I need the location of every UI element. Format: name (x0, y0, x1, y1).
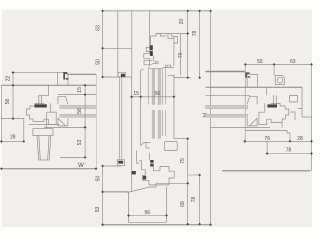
glass pane r2 (206, 114, 248, 117)
glass pane vertical 2 upper (158, 69, 161, 105)
ticks 15/56/53 (84, 84, 87, 159)
glazing bead top right (247, 96, 257, 104)
svg-text:28: 28 (297, 136, 303, 142)
ticks mid-left (101, 10, 104, 227)
frame head outer edge (117, 11, 119, 77)
dimension H vertical (210, 11, 212, 225)
sash chamber block (165, 141, 178, 150)
svg-text:50: 50 (96, 59, 102, 65)
tick line 20 (156, 33, 188, 35)
right border vertical (311, 64, 313, 170)
svg-text:63: 63 (96, 25, 102, 31)
sash top gasket dark (150, 45, 153, 50)
glass pane vertical 1 lower (152, 110, 155, 138)
frame inner face line right (206, 86, 302, 88)
tick line 75 top (174, 138, 189, 140)
ticks mid 15/56 (130, 95, 175, 98)
ticks H (209, 10, 212, 227)
sight line (58, 94, 96, 96)
tick line 53 bottom (60, 156, 85, 158)
upper rail bumps (149, 61, 174, 68)
ext vertical 50 left (244, 64, 246, 141)
anchor clip top (118, 72, 125, 77)
dimension right vertical 20/70 (187, 11, 189, 78)
sight line right (206, 94, 250, 96)
section break line (95, 74, 97, 168)
handle bar (33, 129, 53, 136)
frame head lower chamber (132, 48, 150, 75)
frame outer right vertical (180, 34, 182, 76)
ticks 78 top/bottom (198, 10, 201, 226)
wall step (1, 119, 23, 142)
svg-text:W: W (78, 163, 84, 169)
dimension left vertical 63/50/50/53 (102, 11, 104, 225)
bottom edge line (103, 224, 211, 226)
frame bottom line (103, 75, 191, 77)
ext vertical 63 mid (273, 64, 275, 75)
dimension 50/63 top (245, 63, 311, 65)
sash bottom profile (137, 143, 175, 185)
svg-text:15: 15 (133, 91, 139, 97)
gasket dark (35, 104, 47, 107)
dimension 78 right (267, 153, 311, 155)
frame inner face vertical (131, 76, 133, 192)
sash profile right (259, 87, 289, 124)
svg-text:53: 53 (77, 139, 83, 145)
svg-text:63: 63 (290, 59, 296, 65)
glass pane vertical 2 lower (158, 110, 161, 138)
sill left edge (128, 193, 130, 223)
ext vertical 78 left (266, 141, 268, 153)
svg-text:56: 56 (77, 108, 83, 114)
dimension 78 top vertical (199, 11, 201, 78)
svg-text:50: 50 (96, 176, 102, 182)
wall line double top (67, 73, 96, 75)
frame inner face line (1, 84, 96, 86)
glazing bead bottom right (247, 118, 257, 126)
svg-text:76: 76 (265, 136, 271, 142)
ticks left 22/56 (12, 71, 15, 120)
svg-text:15: 15 (77, 87, 83, 93)
frame head left edge (131, 11, 133, 48)
svg-text:78: 78 (191, 197, 197, 203)
glass pane vertical 1 upper (152, 69, 155, 105)
clip bracket left (58, 72, 69, 85)
jamb frame profile (26, 85, 56, 124)
dimension 56 bottom (129, 215, 167, 217)
dimension 15/56 horizontal (130, 96, 174, 98)
sash bottom gasket dark (150, 160, 153, 163)
frame shoulder right (247, 74, 258, 87)
svg-text:20: 20 (179, 19, 185, 25)
svg-text:53: 53 (95, 207, 101, 213)
dimension W line (1, 168, 96, 170)
ticks W (0, 167, 97, 170)
svg-text:56: 56 (155, 91, 161, 97)
sash lower edge lines (29, 112, 86, 127)
dimension 22/56 line (12, 72, 14, 118)
anchor clip bottom (117, 160, 124, 166)
sill top line (127, 183, 187, 192)
glazing bead top (58, 96, 68, 104)
ticks right 78 (266, 152, 313, 155)
svg-text:75: 75 (180, 158, 186, 164)
svg-text:56: 56 (5, 99, 11, 105)
svg-text:22: 22 (6, 76, 12, 82)
dimension 15/56/53 line (84, 85, 86, 157)
wall outer edge vertical (0, 85, 2, 141)
ticks right 50/63 (244, 63, 313, 66)
gasket dark right (267, 104, 277, 107)
handle stem (37, 136, 51, 161)
anchor strap (119, 77, 122, 160)
svg-text:56: 56 (145, 210, 151, 216)
svg-text:70: 70 (178, 52, 184, 58)
wall line double right (206, 71, 246, 73)
tick line 50 top (103, 165, 122, 167)
glass pane 1 (60, 105, 97, 108)
svg-text:28: 28 (10, 135, 16, 141)
sash wall right (173, 75, 175, 138)
dimension 76/28 (245, 140, 312, 142)
ticks mid 56 bottom (127, 214, 168, 217)
tube flange bump (275, 75, 284, 84)
svg-text:78: 78 (286, 147, 292, 153)
frame head divider (149, 11, 151, 53)
ext vertical 28 (289, 133, 291, 141)
glazing bead bottom (58, 118, 68, 126)
dimension 78 bottom vertical (188, 175, 200, 224)
dimension right vertical 75/68 (187, 139, 189, 224)
sash lower lines right (210, 128, 290, 133)
ticks 28 (0, 140, 25, 143)
ticks mid-right (186, 10, 189, 226)
tick line 50 bottom (103, 191, 129, 193)
clip bracket right (245, 72, 250, 77)
bottom line right section (222, 170, 311, 172)
sash face vertical (141, 69, 151, 146)
svg-text:68: 68 (180, 201, 186, 207)
wire top frame edge (13, 71, 64, 73)
glazing lines lower (163, 110, 166, 136)
sash bottom dark left (143, 176, 146, 180)
glazing lines upper (149, 64, 166, 105)
sash top profile (144, 34, 178, 67)
ticks right 76/28 (243, 140, 313, 143)
glass pane 2 (60, 114, 97, 117)
svg-text:78: 78 (192, 31, 198, 37)
sash bottom dark left2 (132, 171, 136, 174)
frame body right (282, 87, 312, 127)
tick line 63 bottom (103, 47, 132, 49)
dimension 28 line (1, 140, 23, 142)
top edge line (103, 10, 211, 12)
svg-text:50: 50 (257, 59, 263, 65)
glass pane r1 (206, 105, 248, 108)
sill inner wall (129, 187, 167, 222)
